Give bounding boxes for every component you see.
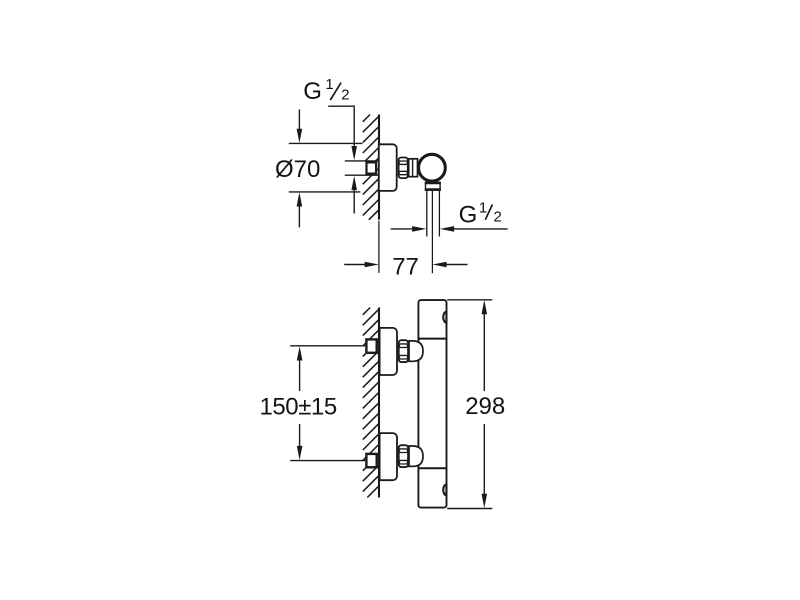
svg-text:G: G [303,78,322,105]
extension line at wall face [378,221,380,273]
thermostat body bar [418,300,446,508]
wall hatching (top view) [363,115,378,220]
union nut (top view) [399,158,408,179]
lower knob profile on right edge [443,485,446,496]
dimension 298 [447,300,505,509]
extension line bottom of Ø70 [289,191,361,193]
dimension 77 [344,221,467,281]
svg-text:1: 1 [325,76,333,93]
svg-text:G: G [459,201,478,228]
extension line lower 150±15 [290,460,365,462]
extension line from body top [447,299,492,301]
upper knob profile on right edge [443,312,446,323]
lower concealed square fitting (bottom view) [366,454,376,467]
upper concealed square fitting (bottom view) [366,339,376,352]
supply pipe stub through wall (top view) [345,161,380,175]
body division line upper [418,338,446,340]
svg-text:298: 298 [465,393,505,420]
svg-text:2: 2 [494,209,502,226]
upper escutcheon (bottom view) [380,328,397,375]
wall face line (top view) [378,115,380,220]
svg-text:150±15: 150±15 [260,393,337,420]
valve body circle (top view) [419,154,446,181]
left arrow [344,264,365,266]
upper union nut (bottom view) [399,340,408,362]
valve inlet connector (top view) [409,159,418,177]
svg-text:77: 77 [392,253,419,280]
upper dome connector into body [409,341,423,361]
label G 1/2 (right of hose pipe) [459,200,502,229]
right G 1/2 dimension arrows on hose pipe [391,228,412,230]
concealed elbow square fitting (top view) [367,162,377,173]
extension line upper 150±15 [290,345,365,347]
lower escutcheon (bottom view) [380,433,397,480]
shower hose collar nut (top view) [426,182,441,190]
lower union nut (bottom view) [399,445,408,467]
wall hatching (bottom view) [363,308,378,498]
wall escutcheon (top view) [379,144,397,191]
svg-text:1: 1 [479,200,487,217]
pipe centre / extension line for 77 [431,191,433,273]
hose connection pipe (top view) [427,191,440,237]
arrow down to pipe top (G 1/2) [351,146,357,160]
Ø70 lower arrow [297,192,303,206]
Ø70 upper arrow [298,109,300,131]
svg-text:Ø70: Ø70 [275,156,320,183]
right arrow [432,262,446,268]
supply pipe bore clearing through wall [345,162,377,175]
body division line lower [418,467,446,469]
lower dome connector into body [409,446,423,466]
dimension 150±15 [260,346,337,460]
wall face line (bottom view) [378,308,380,498]
extension line top of Ø70 [289,142,363,144]
arrow up to pipe bottom (G 1/2) [351,176,357,190]
extension line from body bottom [447,508,492,510]
svg-text:2: 2 [341,86,349,103]
leader line of top G 1/2 [328,106,354,146]
label G 1/2 (top left) [303,76,349,105]
